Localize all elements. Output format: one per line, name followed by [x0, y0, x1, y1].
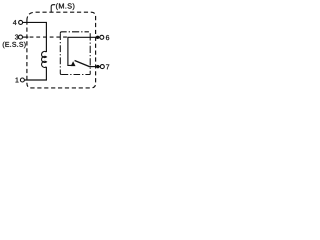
label (M.S): [56, 3, 74, 10]
switch frame top rail and wire to terminal 6: [68, 37, 100, 65]
label 7: [106, 64, 109, 69]
label 4: [13, 20, 17, 25]
relay enclosure dashed box: [27, 12, 96, 88]
terminal 1: [20, 78, 24, 82]
wire coil bottom to terminal 1: [25, 67, 47, 80]
dash-dot section box (M.S): top edge: [60, 32, 89, 33]
wire stub terminal 3: [23, 36, 29, 38]
wire blade pivot to terminal 7: [89, 66, 100, 68]
leader to (M.S): [51, 5, 55, 13]
label 6: [106, 35, 109, 40]
label 1: [16, 78, 19, 83]
wire terminal 4 to coil top: [23, 22, 47, 52]
fixed contact triangle: [71, 61, 76, 66]
terminal 3: [19, 35, 23, 39]
dash-dot section box (M.S): bottom edge: [62, 74, 91, 76]
terminal 6: [100, 35, 104, 39]
label 3: [15, 35, 18, 40]
label (E.S.S): [3, 42, 26, 49]
dashed link terminal 3 to switch: [30, 36, 68, 38]
coil L: [42, 51, 47, 67]
junction dot terminal 7: [96, 65, 99, 68]
switch blade: [75, 61, 90, 67]
dash-dot section box (M.S): right edge: [89, 33, 91, 74]
terminal 7: [100, 65, 104, 69]
dash-dot section box (M.S): left edge: [60, 33, 61, 74]
junction dot terminal 6: [96, 36, 99, 39]
terminal 4: [19, 20, 23, 24]
